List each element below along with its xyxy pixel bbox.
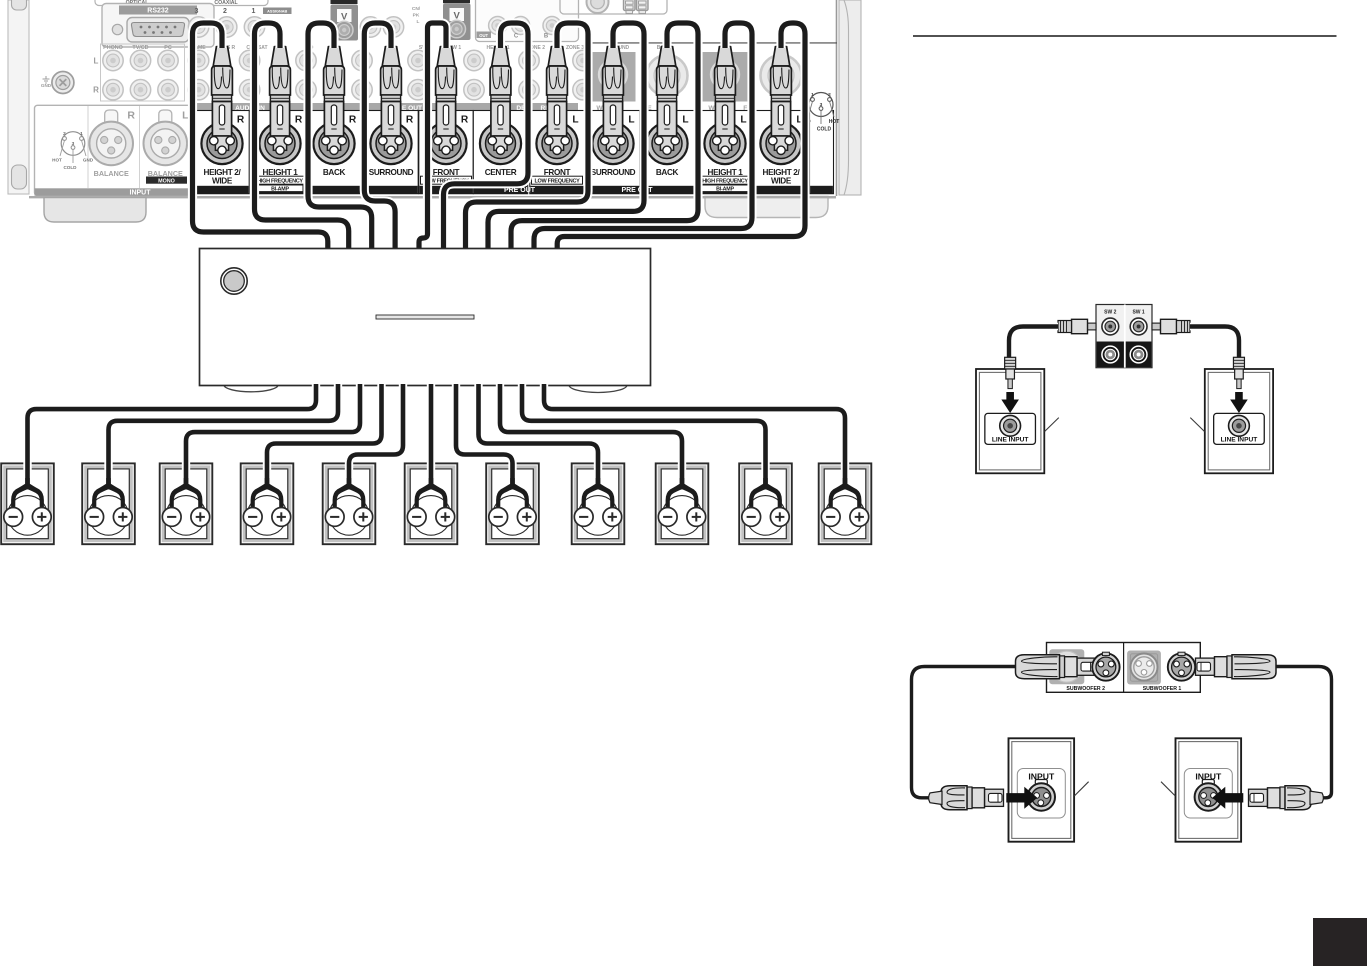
speaker 1 terminals (4, 508, 51, 527)
pre-out label box BACK R (307, 111, 361, 194)
wire amp to speaker 4 (267, 384, 382, 487)
RS232 connector (102, 4, 214, 48)
amp power button (221, 268, 247, 294)
pre-out section top border line (590, 42, 838, 44)
cable pre-out FRONT L to amp (466, 23, 589, 251)
svg-text:R: R (237, 114, 245, 125)
pre-out label box HEIGHT 2/ WIDE R (195, 111, 249, 194)
svg-text:GND: GND (41, 83, 52, 88)
svg-text:PK: PK (413, 13, 420, 19)
wire amp to speaker 8 (479, 384, 599, 487)
speaker 2 box (82, 463, 135, 544)
pre-out label box HEIGHT 1 L (698, 111, 752, 194)
wire amp to speaker 3 (186, 384, 360, 487)
BALANCE XLR jack L (144, 110, 190, 178)
svg-text:L: L (740, 114, 746, 125)
svg-text:WIDE: WIDE (212, 177, 233, 186)
speaker 1 box (1, 463, 54, 544)
RCA plug into SW1 (1152, 319, 1190, 333)
svg-text:OUT: OUT (479, 33, 488, 38)
cable pre-out SURROUND L to amp (488, 23, 644, 251)
arrow into left sub INPUT (1006, 787, 1037, 809)
speaker 5 terminals (325, 508, 372, 527)
svg-text:L: L (417, 19, 420, 25)
cable pre-out CENTER to amp (444, 23, 529, 251)
svg-text:CN/: CN/ (412, 6, 421, 12)
RCA plug vertical into subwoofer left (1005, 357, 1016, 388)
XLR plug BACK L (646, 46, 687, 164)
speaker 11 box (819, 463, 872, 544)
cable SW2 to subwoofer (left) (1009, 327, 1058, 358)
svg-text:HEIGHT 1: HEIGHT 1 (708, 168, 744, 177)
svg-text:R: R (93, 86, 99, 95)
svg-text:3: 3 (195, 8, 199, 15)
svg-text:3: 3 (72, 141, 75, 147)
jack numbers 3 2 1 + ASSIGNABLE tag (195, 8, 292, 16)
male XLR jack SUBWOOFER 2 (1092, 652, 1119, 681)
wire fork speaker 5 (333, 478, 366, 509)
svg-text:ASSIGNAB: ASSIGNAB (267, 10, 287, 14)
XLR plug into SUBWOOFER 2 (1016, 655, 1097, 679)
chassis left edge (8, 0, 29, 194)
svg-text:1: 1 (252, 8, 256, 15)
svg-text:R: R (406, 114, 414, 125)
svg-text:2: 2 (223, 8, 227, 15)
svg-text:SUBWOOFER 1: SUBWOOFER 1 (1143, 686, 1182, 692)
pre-out label box SURROUND L (586, 111, 640, 194)
speaker 5 box (323, 463, 376, 544)
svg-text:BACK: BACK (323, 168, 346, 177)
subwoofer box right (XLR INPUT) (1176, 738, 1242, 841)
XLR pin diagram (pre out, GND/HOT/COLD) (803, 92, 839, 133)
speaker 8 box (572, 463, 625, 544)
svg-text:COLD: COLD (63, 165, 77, 170)
PRE OUT strip text (504, 187, 653, 194)
mid jack grid ghost pairs (188, 50, 593, 100)
svg-text:L: L (94, 57, 99, 66)
svg-text:INPUT: INPUT (130, 189, 152, 196)
RCA plug into SW2 (1058, 319, 1096, 333)
wire amp to speaker 11 (544, 384, 845, 487)
cable pre-out HEIGHT 1 R to amp (255, 23, 349, 251)
section title band (195, 103, 756, 112)
male XLR jack SUBWOOFER 1 (1168, 652, 1195, 681)
female XLR jack SUBWOOFER 1 (empty) (1131, 654, 1158, 681)
component video out block (476, 0, 579, 42)
svg-text:R: R (295, 114, 303, 125)
wire amp to speaker 1 (28, 384, 317, 487)
svg-text:L: L (628, 114, 634, 125)
wire fork speaker 7 (496, 478, 529, 509)
speaker 4 terminals (243, 508, 290, 527)
panel left foot (44, 198, 146, 223)
video OUT box V (1) (331, 0, 359, 41)
power amplifier box (200, 249, 651, 386)
XLR plug into SUBWOOFER 1 (1196, 655, 1277, 679)
pre-out label box HEIGHT 2/ WIDE L (754, 111, 808, 194)
svg-text:LOW FREQUENCY: LOW FREQUENCY (535, 178, 581, 184)
analog input jacks PHONO TV/CD PC (93, 44, 184, 101)
XLR plug FRONT R (425, 46, 466, 164)
svg-text:3: 3 (820, 102, 823, 108)
svg-text:2: 2 (63, 131, 66, 137)
speaker 4 box (241, 463, 294, 544)
svg-text:WIDE: WIDE (771, 177, 792, 186)
XLR plug to left sub INPUT (929, 786, 1004, 810)
svg-text:BI-AMP: BI-AMP (271, 186, 289, 192)
pre-out label box HEIGHT 1 R (253, 111, 307, 194)
XLR plug to right sub INPUT (1249, 786, 1324, 810)
svg-text:MONO: MONO (158, 178, 175, 184)
leader line subwoofer left (1045, 418, 1059, 432)
svg-text:BALANCE: BALANCE (94, 169, 129, 178)
XLR jack in right sub box (1195, 780, 1222, 811)
speaker 8 terminals (574, 508, 621, 527)
BALANCE XLR jack R (89, 110, 135, 178)
svg-text:C: C (514, 34, 519, 40)
SW pre-out jack panel (1096, 305, 1152, 368)
OPTICAL / COAXIAL header box (95, 0, 268, 6)
svg-text:1: 1 (80, 131, 83, 137)
speaker 7 terminals (489, 508, 536, 527)
svg-text:SURROUND: SURROUND (369, 168, 414, 177)
XLR plug HEIGHT 2/ WIDE L (760, 46, 801, 164)
arrow into LINE INPUT left (1001, 392, 1019, 413)
cable pre-out BACK L to amp (511, 23, 698, 251)
subwoofer jack square behind column 8 (591, 52, 636, 102)
svg-text:B: B (544, 34, 549, 40)
wire fork speaker 11 (829, 478, 862, 509)
leader line subwoofer right (1190, 418, 1204, 432)
XLR plug HEIGHT 2/ WIDE R (201, 46, 242, 164)
cable pre-out SURROUND R to amp (364, 23, 395, 251)
svg-text:HIGH FREQUENCY: HIGH FREQUENCY (257, 178, 303, 184)
svg-text:BI-AMP: BI-AMP (716, 186, 734, 192)
wire amp to speaker 10 (522, 384, 766, 487)
INPUT section bar (35, 188, 194, 196)
video OUT box V (2) (443, 0, 471, 40)
receiver rear panel body (29, 0, 836, 197)
XLR plug SURROUND R (370, 46, 411, 164)
svg-text:LINE INPUT: LINE INPUT (1221, 436, 1258, 443)
wire fork speaker 10 (749, 478, 782, 509)
speaker 11 terminals (821, 508, 868, 527)
wire amp to speaker 9 (500, 384, 682, 487)
chassis right edge (837, 0, 862, 196)
antenna / terminal cluster (560, 0, 667, 14)
GND screw terminal (41, 72, 74, 94)
svg-text:GND: GND (83, 158, 94, 163)
svg-text:R: R (127, 110, 135, 122)
wire fork speaker 8 (582, 478, 615, 509)
wire amp to speaker 2 (109, 384, 339, 487)
LINE INPUT plate left (985, 413, 1036, 444)
arrow into right sub INPUT (1212, 787, 1243, 809)
cable pre-out FRONT R to amp (419, 23, 446, 251)
cable pre-out HEIGHT 2/ WIDE L to amp (557, 23, 805, 251)
svg-text:HOT: HOT (829, 119, 840, 125)
wire fork speaker 6 (415, 478, 448, 509)
ghost XLR jack circle behind column 11 (761, 55, 802, 96)
leader line right sub box (1161, 782, 1175, 796)
power amp foot left (224, 378, 278, 392)
XLR plug CENTER (480, 46, 521, 164)
BALANCE XLR input section (35, 105, 194, 195)
speaker 6 box (405, 463, 458, 544)
cable SW1 to subwoofer (right) (1190, 327, 1239, 358)
subwoofer jack square behind column 10 (703, 52, 748, 102)
speaker 9 terminals (658, 508, 705, 527)
XLR plug HEIGHT 1 L (704, 46, 745, 164)
svg-text:COLD: COLD (817, 127, 832, 133)
XLR plug BACK R (313, 46, 354, 164)
speaker 3 terminals (162, 508, 209, 527)
horizontal divider rule (913, 35, 1337, 37)
speaker 6 terminals (407, 508, 454, 527)
svg-text:SURROUND: SURROUND (591, 168, 636, 177)
wire fork speaker 2 (92, 478, 125, 509)
cable SUBWOOFER 2 to left sub (912, 667, 1017, 798)
svg-text:SW 2: SW 2 (1104, 310, 1116, 316)
svg-text:RS232: RS232 (147, 8, 169, 15)
svg-text:L: L (572, 114, 578, 125)
svg-text:1: 1 (811, 92, 814, 98)
svg-text:COAXIAL: COAXIAL (214, 0, 238, 6)
pre-out label box SURROUND R (364, 111, 418, 194)
svg-text:CENTER: CENTER (485, 168, 517, 177)
svg-text:2: 2 (828, 92, 831, 98)
svg-text:R: R (461, 114, 469, 125)
XLR pin diagram (input, HOT/COLD/GND) (52, 131, 94, 170)
panel right foot (705, 197, 828, 218)
svg-text:HEIGHT 1: HEIGHT 1 (263, 168, 299, 177)
svg-text:SUBWOOFER 2: SUBWOOFER 2 (1066, 686, 1105, 692)
amp front slot (376, 315, 474, 319)
RCA plug vertical into subwoofer right (1233, 357, 1244, 388)
SUBWOOFER XLR pre-out panel (1047, 643, 1201, 693)
svg-text:SW 1: SW 1 (1132, 310, 1144, 316)
XLR plug HEIGHT 1 R (259, 46, 300, 164)
cable pre-out HEIGHT 2/ WIDE R to amp (193, 23, 328, 251)
power amp foot right (569, 378, 627, 393)
svg-text:BACK: BACK (656, 168, 679, 177)
svg-text:LINE INPUT: LINE INPUT (992, 436, 1029, 443)
arrow into LINE INPUT right (1230, 392, 1248, 413)
speaker 9 box (656, 463, 709, 544)
wire amp to speaker 5 (349, 384, 403, 487)
leader line left sub box (1074, 782, 1088, 796)
XLR plug FRONT L (536, 46, 577, 164)
svg-text:HEIGHT 2/: HEIGHT 2/ (204, 168, 242, 177)
svg-text:L: L (682, 114, 688, 125)
svg-text:HEIGHT 2/: HEIGHT 2/ (763, 168, 801, 177)
svg-text:R: R (349, 114, 357, 125)
subwoofer box right (LINE INPUT) (1205, 369, 1273, 473)
svg-text:BALANCE: BALANCE (148, 169, 183, 178)
panel bottom gray shadow line (194, 196, 836, 198)
speaker 7 box (486, 463, 539, 544)
speaker 10 box (739, 463, 792, 544)
pre-out label box FRONT R (419, 111, 473, 194)
page corner tab (1313, 918, 1367, 966)
svg-text:HOT: HOT (52, 158, 62, 163)
top RCA jack row (188, 17, 403, 37)
wire fork speaker 1 (11, 478, 44, 509)
cable pre-out HEIGHT 1 L to amp (534, 23, 752, 251)
wire amp to speaker 6 (427, 384, 435, 487)
subwoofer box left (LINE INPUT) (976, 369, 1044, 473)
wire fork speaker 4 (251, 478, 284, 509)
speaker 10 terminals (742, 508, 789, 527)
pre-out label box FRONT L (530, 111, 584, 194)
XLR plug SURROUND L (592, 46, 633, 164)
speaker 2 terminals (85, 508, 132, 527)
MONO tag (146, 177, 187, 185)
svg-text:HIGH FREQUENCY: HIGH FREQUENCY (702, 178, 748, 184)
XLR jack in left sub box (1028, 780, 1055, 811)
ghost XLR jack circle behind column 9 (647, 55, 688, 96)
svg-text:FRONT: FRONT (433, 168, 460, 177)
subwoofer box left (XLR INPUT) (1009, 738, 1075, 841)
wire amp to speaker 7 (456, 384, 513, 487)
speaker 3 box (160, 463, 213, 544)
pre-out label box far right (blank) (810, 111, 834, 194)
svg-text:FRONT: FRONT (544, 168, 571, 177)
wire fork speaker 3 (170, 478, 203, 509)
pre-out label box CENTER (473, 111, 527, 194)
LINE INPUT plate right (1214, 413, 1265, 444)
wire fork speaker 9 (666, 478, 699, 509)
CH/PK ghost text (412, 6, 421, 25)
cable pre-out BACK R to amp (308, 23, 372, 251)
ghost jack labels row (194, 45, 671, 51)
cable SUBWOOFER 1 to right sub (1272, 667, 1332, 798)
pre-out label box BACK L (640, 111, 694, 194)
